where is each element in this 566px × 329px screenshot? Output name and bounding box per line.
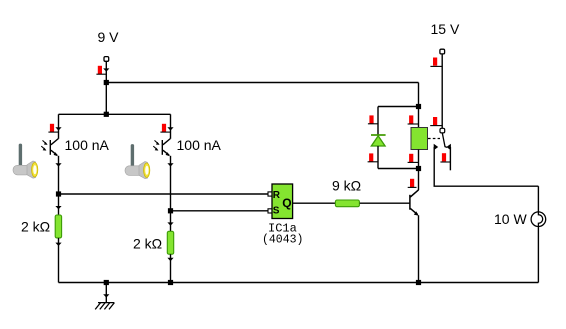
wire 15V down <box>441 54 443 128</box>
node junction coil bottom <box>416 166 421 171</box>
node junction ground <box>104 280 109 285</box>
node junction branches <box>104 112 109 117</box>
pin arrow Q1 collector <box>55 127 61 130</box>
svg-text:S: S <box>273 206 280 217</box>
diode D1 <box>371 134 386 136</box>
pin arrow R2 bottom <box>167 258 173 261</box>
resistor R1 2k <box>55 215 61 238</box>
relay coil RL1 <box>411 128 428 150</box>
wire coil-diode bottom link <box>378 168 419 170</box>
wire ground stub <box>105 283 107 303</box>
wire Q3 emitter <box>418 215 420 282</box>
flashlight 1 <box>13 144 38 179</box>
node junction R2 bottom <box>168 280 173 285</box>
wire Q output <box>293 202 336 204</box>
wire lamp top <box>537 186 539 212</box>
lamp L1 10W <box>531 212 546 227</box>
ground symbol <box>95 303 114 310</box>
wire R2 top <box>170 211 172 232</box>
latch IC1a body <box>272 184 293 219</box>
pin arrow R1 bottom <box>55 243 61 246</box>
wire V1 down <box>105 61 107 114</box>
relay throw contact left <box>434 144 439 150</box>
svg-text:R: R <box>273 190 281 201</box>
pin indicator Q2 collector <box>162 124 166 132</box>
wire coil top pin <box>418 107 420 128</box>
phototransistor Q2 <box>162 139 170 156</box>
node junction Q2-S input <box>168 208 173 213</box>
relay switch pole pivot <box>440 128 445 133</box>
wire Q3 collector <box>418 169 420 191</box>
wire R input <box>59 193 268 195</box>
svg-text:9 kΩ: 9 kΩ <box>332 178 361 194</box>
node junction top-left <box>104 80 109 85</box>
wire bottom rail <box>59 282 539 284</box>
svg-text:(4043): (4043) <box>262 234 303 247</box>
pin indicator Q3 collector <box>410 179 414 187</box>
pin indicator V2 <box>433 58 437 66</box>
svg-text:Q: Q <box>282 196 291 210</box>
input bubble R <box>268 192 272 196</box>
terminal V2 15V <box>440 49 445 54</box>
relay actuation dashes <box>428 138 440 140</box>
pin arrow ground <box>103 294 109 297</box>
pin arrow Q2 emitter <box>167 163 173 166</box>
svg-text:15 V: 15 V <box>431 21 460 37</box>
wire branches top <box>59 113 171 115</box>
pin indicator D1 bottom <box>369 153 373 161</box>
wire R1 top <box>58 194 60 215</box>
pin arrow Q2 collector <box>167 127 173 130</box>
node junction coil top <box>416 104 421 109</box>
wire Q2 collector <box>170 114 172 139</box>
transistor Q3 NPN <box>410 190 419 215</box>
light arrows Q1 <box>41 140 46 149</box>
wire coil bottom pin <box>418 150 420 169</box>
pin indicator coil top <box>409 115 413 123</box>
wire Q2 emitter <box>170 156 172 211</box>
wire coil-diode top link <box>378 106 419 108</box>
relay throw contact right <box>446 144 451 150</box>
pin arrow R1 top <box>55 206 61 209</box>
wire Q1 emitter <box>58 156 60 194</box>
pin indicator V1 <box>98 66 102 74</box>
svg-text:9 V: 9 V <box>98 29 120 45</box>
pin indicator coil bottom <box>409 154 413 162</box>
relay switch blade <box>442 133 447 147</box>
svg-text:2 kΩ: 2 kΩ <box>21 219 50 235</box>
pin indicator switch pole <box>433 117 437 125</box>
wire 9V rail corner down <box>418 83 420 107</box>
resistor R3 9k <box>335 200 359 207</box>
wire R2 bottom <box>170 254 172 282</box>
phototransistor Q1 <box>50 139 58 156</box>
terminal V1 9V <box>104 57 109 62</box>
wire diode bottom <box>377 146 379 169</box>
wire Q1 collector <box>58 114 60 139</box>
node junction Q1-R input <box>56 191 61 196</box>
wire 9V rail top <box>106 82 418 84</box>
svg-text:100 nA: 100 nA <box>65 137 110 153</box>
wire throw left to lamp <box>434 147 538 186</box>
wire throw right stub <box>449 147 451 170</box>
wire Q3 base <box>360 202 410 204</box>
wire R1 bottom <box>58 238 60 283</box>
svg-text:100 nA: 100 nA <box>177 137 222 153</box>
wire lamp bottom <box>537 227 539 283</box>
resistor R2 2k <box>167 231 173 254</box>
wire diode top <box>377 107 379 136</box>
pin indicator D1 top <box>369 115 373 123</box>
svg-text:2 kΩ: 2 kΩ <box>133 236 162 252</box>
pin arrow R2 top <box>167 222 173 225</box>
wire S input <box>171 210 268 212</box>
light arrows Q2 <box>153 140 158 149</box>
pin indicator Q1 collector <box>50 124 54 132</box>
pin arrow V1 <box>103 68 109 71</box>
node junction Q3 emitter bottom <box>416 280 421 285</box>
pin indicator throw right <box>442 153 446 161</box>
flashlight 2 <box>125 144 150 179</box>
svg-text:10 W: 10 W <box>494 211 527 227</box>
input bubble S <box>268 209 272 213</box>
pin arrow Q1 emitter <box>55 163 61 166</box>
